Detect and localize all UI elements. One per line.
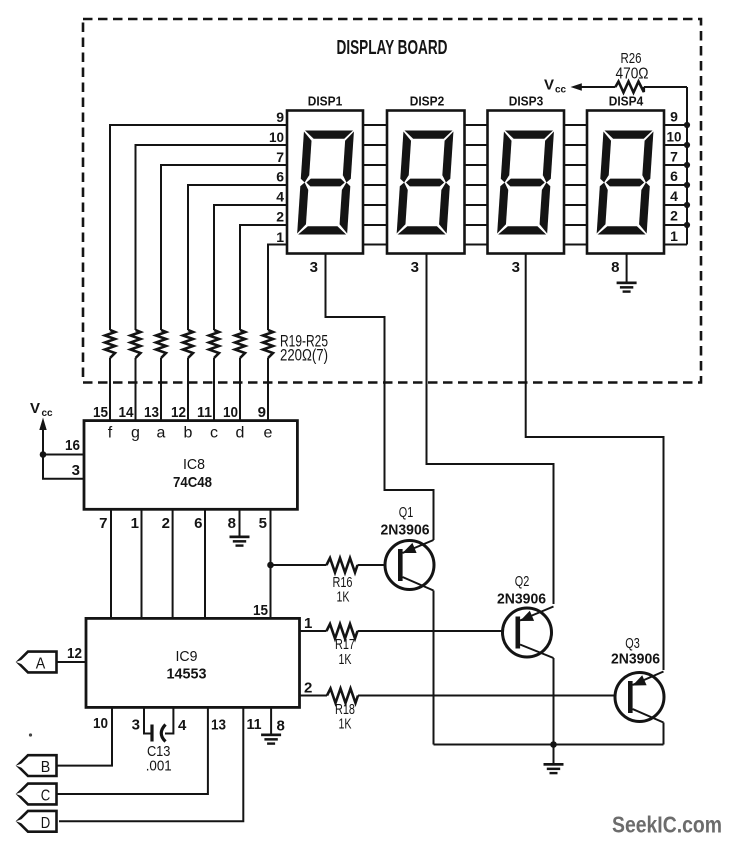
svg-text:b: b (184, 425, 193, 442)
wire Q3 collector to common rail (663, 723, 665, 745)
transistor Q1 2N3906 (381, 505, 435, 591)
svg-text:13: 13 (211, 717, 226, 734)
display DISP1 (287, 94, 363, 254)
svg-text:DISP3: DISP3 (509, 94, 544, 109)
svg-text:2: 2 (670, 208, 678, 224)
svg-text:6: 6 (670, 168, 678, 184)
svg-text:6: 6 (194, 515, 202, 532)
junction dot Vcc node (40, 451, 47, 458)
wire R25 to IC8 pin 9 (267, 358, 269, 421)
wire segment a: DISP1 pin 7 (161, 165, 287, 330)
svg-text:DISPLAY BOARD: DISPLAY BOARD (337, 37, 448, 59)
svg-text:15: 15 (93, 404, 108, 421)
svg-text:3: 3 (72, 462, 80, 479)
svg-text:11: 11 (247, 716, 262, 733)
display DISP3 (488, 94, 565, 254)
svg-text:D: D (41, 815, 51, 832)
svg-text:14553: 14553 (167, 666, 207, 683)
ground (DISP4) (617, 282, 637, 293)
svg-text:7: 7 (670, 149, 678, 165)
anode bus vertical wire (686, 87, 688, 245)
svg-text:13: 13 (144, 404, 159, 421)
DISP1 left pin numbers (269, 109, 284, 245)
svg-text:2: 2 (162, 515, 170, 532)
wire IC8 pin 2 to IC9 (172, 509, 174, 618)
wire R24 to IC8 pin 10 (239, 358, 241, 421)
svg-text:3: 3 (411, 259, 419, 276)
resistor R19 (105, 330, 115, 358)
wire IC8 pin 16 (43, 454, 84, 456)
wire R19 to IC8 pin 15 (109, 358, 111, 421)
svg-text:V: V (544, 77, 554, 94)
svg-text:DISP4: DISP4 (609, 94, 644, 109)
svg-text:4: 4 (178, 717, 187, 734)
svg-text:12: 12 (67, 645, 82, 662)
junction pin 6 (684, 182, 690, 188)
svg-text:R17: R17 (335, 637, 355, 653)
svg-text:1K: 1K (337, 590, 350, 606)
svg-text:c: c (210, 425, 218, 442)
wire segment b: DISP1 pin 6 (188, 185, 287, 330)
svg-text:Q2: Q2 (515, 574, 530, 590)
common emitter rail wire (434, 744, 664, 746)
junction pin 10 (684, 142, 690, 148)
wire IC8 pin 3 (43, 455, 84, 479)
svg-text:220Ω(7): 220Ω(7) (280, 347, 328, 365)
svg-text:DISP1: DISP1 (308, 94, 343, 109)
wire DISP1 pin 3 to Q1 emitter (326, 254, 434, 541)
svg-text:2: 2 (276, 209, 284, 225)
wire node to IC9 pin 15 (270, 565, 272, 618)
junction dot at IC8 pin5 / IC9 pin15 / R16 node (267, 562, 274, 569)
display DISP2 (387, 94, 465, 254)
svg-text:B: B (41, 759, 51, 776)
capacitor C13 .001 (146, 725, 172, 775)
svg-text:IC8: IC8 (183, 456, 205, 473)
junction pin 7 (684, 162, 690, 168)
svg-text:8: 8 (611, 259, 619, 276)
DISP4 pin 8 to ground (626, 254, 628, 282)
svg-text:1: 1 (304, 615, 312, 632)
resistor R23 (209, 330, 219, 358)
node D input flag (16, 811, 57, 832)
IC8 pin 5 wire (270, 509, 272, 565)
transistor Q3 2N3906 (611, 636, 664, 723)
IC9 pin 10 wire to B (57, 707, 112, 765)
wire Q2 collector to common rail (553, 658, 555, 745)
wire DISP3 pin 3 to Q3 emitter (526, 254, 664, 671)
wire bus DISP3 to DISP4 (564, 125, 587, 245)
svg-text:9: 9 (258, 404, 266, 421)
svg-text:2: 2 (304, 680, 312, 697)
svg-text:2N3906: 2N3906 (611, 651, 660, 668)
wire segment g: DISP1 pin 10 (136, 145, 288, 330)
resistors R19-R25 (seven vertical 220 ohm) (105, 330, 273, 358)
wire segment e: DISP1 pin 1 (268, 245, 287, 331)
resistor R17 1K (IC9 pin 1 to Q2 base) (300, 615, 503, 668)
op-amp/IC U: IC8 74C48 box (84, 421, 297, 510)
resistor R16 1K (271, 558, 386, 606)
svg-text:.001: .001 (146, 758, 172, 775)
svg-text:cc: cc (42, 408, 54, 419)
IC9 pin 4 stub (165, 707, 173, 733)
IC9 pin 13 wire to C (57, 707, 208, 794)
svg-text:g: g (131, 425, 140, 442)
svg-text:3: 3 (310, 259, 318, 276)
svg-text:1K: 1K (339, 652, 352, 668)
svg-text:9: 9 (670, 109, 678, 125)
svg-text:14: 14 (119, 404, 135, 421)
svg-text:SeekIC.com: SeekIC.com (612, 812, 722, 838)
svg-text:4: 4 (670, 188, 678, 204)
IC8 top pin numbers (93, 404, 266, 421)
wire R23 to IC8 pin 11 (213, 358, 215, 421)
svg-text:2N3906: 2N3906 (497, 591, 546, 608)
junction pin 9 (684, 122, 690, 128)
wire bus DISP1 to DISP2 (363, 125, 387, 245)
wire bus DISP2 to DISP3 (465, 125, 488, 245)
wire R21 to IC8 pin 13 (160, 358, 162, 421)
Vcc arrow at display board (544, 77, 582, 96)
junction dot rail/ground (550, 741, 557, 748)
wire R20 to IC8 pin 14 (135, 358, 137, 421)
junction pin 2 (684, 222, 690, 228)
svg-text:a: a (157, 425, 166, 442)
stray scan dot (29, 733, 32, 736)
display DISP4 (587, 94, 664, 254)
svg-text:6: 6 (276, 169, 284, 185)
node B input flag (16, 755, 57, 776)
segment bus wires between displays (363, 125, 587, 245)
resistor R24 (235, 330, 245, 358)
wire IC8 pin 6 to IC9 (204, 509, 206, 618)
svg-text:2N3906: 2N3906 (381, 522, 430, 539)
svg-text:cc: cc (555, 85, 567, 96)
svg-text:7: 7 (276, 149, 284, 165)
resistor R25 (263, 330, 273, 358)
ground (IC8 pin 8) (230, 536, 250, 547)
wire segment c: DISP1 pin 4 (214, 205, 287, 330)
svg-text:8: 8 (277, 718, 285, 735)
svg-text:3: 3 (512, 259, 520, 276)
svg-text:1: 1 (131, 515, 139, 532)
op-amp/IC U: IC9 14553 box (86, 618, 300, 707)
DISP4 right pin stubs to anode bus (664, 125, 687, 245)
svg-text:10: 10 (93, 715, 108, 732)
svg-text:9: 9 (276, 109, 284, 125)
svg-text:4: 4 (276, 189, 284, 205)
wire segment d: DISP1 pin 2 (240, 225, 287, 330)
IC8 pin 8 wire (239, 509, 241, 535)
svg-text:f: f (108, 425, 113, 442)
junction pin 4 (684, 202, 690, 208)
DISP4 right pin numbers (667, 109, 682, 245)
svg-text:10: 10 (223, 404, 238, 421)
svg-text:d: d (236, 425, 245, 442)
IC9 pin 11 wire to D (59, 707, 243, 821)
svg-text:5: 5 (259, 515, 267, 532)
svg-text:7: 7 (99, 515, 107, 532)
svg-text:C: C (41, 788, 51, 805)
resistor R21 (156, 330, 166, 358)
IC9 pin 8 wire (270, 707, 272, 733)
resistor R26 470ohm (577, 50, 687, 93)
transistor Q2 2N3906 (497, 574, 554, 658)
ground (rail) (553, 745, 555, 764)
svg-text:470Ω: 470Ω (616, 66, 649, 83)
svg-text:11: 11 (197, 404, 212, 421)
svg-text:10: 10 (269, 129, 284, 145)
svg-text:16: 16 (65, 437, 80, 454)
svg-text:8: 8 (228, 515, 236, 532)
node A input flag (16, 645, 86, 673)
svg-text:15: 15 (253, 602, 268, 619)
svg-text:12: 12 (171, 404, 186, 421)
wire IC8 pin 1 to IC9 (141, 509, 143, 618)
svg-text:V: V (30, 400, 40, 417)
svg-text:74C48: 74C48 (173, 474, 212, 491)
junction dots on anode bus (684, 122, 690, 228)
svg-text:1: 1 (670, 228, 678, 244)
node C input flag (16, 784, 57, 805)
wire DISP2 pin 3 to Q2 emitter (427, 254, 554, 605)
svg-text:DISP2: DISP2 (410, 94, 445, 109)
ground (IC9 pin 8) (261, 734, 281, 745)
Vcc arrow at IC8 (30, 400, 53, 455)
svg-text:1: 1 (276, 229, 284, 245)
display board dashed enclosure (83, 19, 701, 383)
IC8 bottom pin numbers (99, 515, 267, 532)
wire R22 to IC8 pin 12 (187, 358, 189, 421)
wire Q1 collector to common rail (433, 591, 435, 745)
svg-text:3: 3 (132, 717, 140, 734)
svg-text:A: A (36, 656, 46, 673)
wire IC8 pin 7 to IC9 (110, 509, 112, 618)
svg-text:e: e (264, 425, 273, 442)
IC9 pin 3 stub (144, 707, 151, 733)
svg-text:10: 10 (667, 129, 682, 145)
svg-text:Q1: Q1 (399, 505, 414, 521)
wire segment f: DISP1 pin 9 (110, 125, 287, 330)
resistor R20 (131, 330, 141, 358)
svg-text:R26: R26 (621, 50, 642, 67)
resistor R18 1K (IC9 pin 2 to Q3 base) (300, 680, 616, 733)
svg-text:1K: 1K (339, 717, 352, 733)
resistor R22 (183, 330, 193, 358)
svg-text:IC9: IC9 (176, 648, 198, 665)
